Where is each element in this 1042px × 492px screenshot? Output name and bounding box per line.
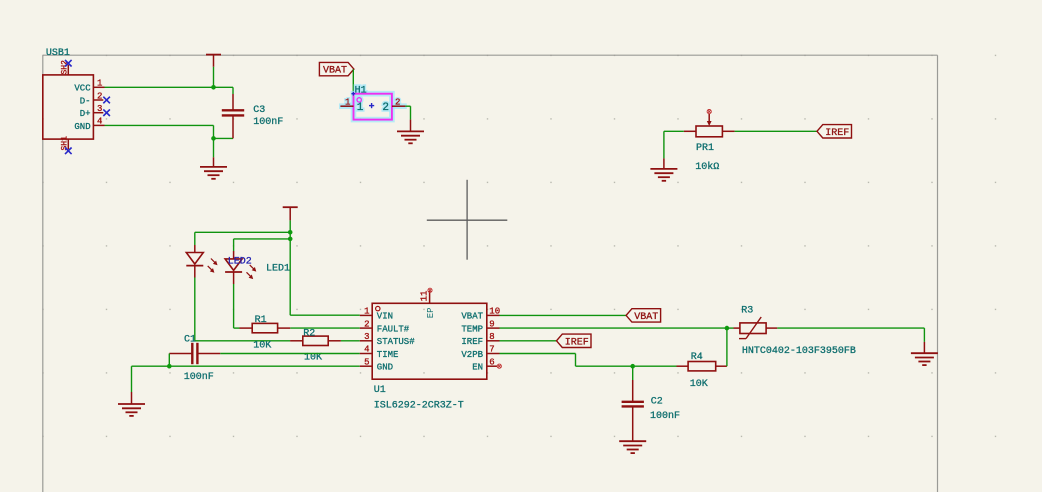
global label VBAT (pin10) — [626, 309, 661, 323]
wire C1 left down — [168, 354, 170, 367]
wire LED rail vertical — [289, 220, 291, 315]
svg-text:2: 2 — [364, 319, 369, 329]
LED D LED2 — [225, 251, 256, 284]
resistor R1 10K — [240, 315, 291, 352]
capacitor C1 100nF — [169, 334, 220, 382]
svg-text:EP: EP — [426, 307, 436, 318]
svg-text:C1: C1 — [184, 334, 196, 345]
svg-text:GND: GND — [377, 363, 393, 373]
wire R4 up to TEMP junction — [726, 328, 728, 366]
svg-text:4: 4 — [364, 345, 369, 355]
wire branch to LED1 — [195, 232, 290, 245]
svg-text:VBAT: VBAT — [461, 312, 483, 322]
wire VBAT to H1 — [352, 69, 354, 93]
wire C1 right to U1 pin4 — [220, 353, 359, 355]
svg-text:HNTC0402-103F3950FB: HNTC0402-103F3950FB — [742, 346, 856, 357]
wire corner down to ground — [213, 125, 215, 157]
svg-text:D+: D+ — [80, 109, 91, 119]
wire LED2 to row2 — [234, 284, 240, 328]
wire rail to ground — [131, 366, 133, 392]
svg-text:5: 5 — [364, 357, 369, 367]
wire TEMP junction to R3 — [727, 327, 734, 329]
svg-text:10kΩ: 10kΩ — [695, 161, 719, 173]
wire GND rail row5 — [132, 365, 360, 367]
svg-text:LED2: LED2 — [228, 257, 252, 268]
svg-text:PR1: PR1 — [696, 143, 714, 154]
wire junction to C3 top — [214, 87, 234, 94]
no-connect X on pin 2 D- — [103, 97, 110, 104]
cursor crosshair — [427, 180, 508, 260]
svg-text:6: 6 — [489, 357, 494, 367]
wire rail to U1 pin1 — [290, 314, 360, 316]
svg-text:R3: R3 — [741, 306, 753, 317]
svg-text:VBAT: VBAT — [323, 66, 347, 77]
wire GND pin4 to corner — [105, 124, 214, 126]
wire pin8 to IREF — [500, 340, 557, 342]
power symbol VBUS (LED rail) — [283, 207, 298, 220]
svg-text:10K: 10K — [304, 353, 322, 364]
power symbol VBUS (top of USB section) — [206, 55, 221, 67]
wire VCC pin1 to junction — [105, 86, 214, 88]
ground (R3) — [911, 342, 938, 365]
ground (C1 rail) — [118, 392, 145, 416]
svg-text:11: 11 — [420, 291, 430, 302]
svg-text:VIN: VIN — [377, 312, 393, 322]
wire PR1 left to ground — [664, 131, 684, 158]
svg-text:TIME: TIME — [377, 350, 399, 360]
svg-text:STATUS#: STATUS# — [377, 337, 415, 347]
svg-text:VBAT: VBAT — [634, 312, 658, 323]
ground (USB/C3) — [200, 157, 227, 179]
svg-text:IREF: IREF — [461, 337, 483, 347]
ground (H1) — [397, 120, 424, 144]
wire power stem down to junction — [213, 67, 215, 88]
svg-text:R2: R2 — [303, 328, 315, 339]
no-connect X on pin 3 D+ — [103, 109, 110, 116]
wire LED1 to row3 — [195, 278, 290, 341]
resistor R4 10K — [677, 352, 727, 390]
wire H1 pin2 to ground — [405, 106, 410, 119]
node GND junction — [211, 136, 216, 141]
svg-text:U1: U1 — [374, 385, 386, 396]
wire R1 to U1 pin2 — [290, 327, 360, 329]
svg-text:ISL6292-2CR3Z-T: ISL6292-2CR3Z-T — [374, 401, 464, 412]
svg-text:100nF: 100nF — [253, 117, 283, 128]
svg-text:1: 1 — [357, 102, 364, 114]
svg-text:VCC: VCC — [74, 84, 91, 94]
op-amp / IC U1 ISL6292-2CR3Z-T — [360, 291, 500, 412]
node C1/GND junction — [167, 364, 172, 369]
svg-text:2: 2 — [395, 98, 400, 108]
svg-text:100nF: 100nF — [184, 372, 214, 383]
svg-text:1: 1 — [345, 98, 350, 108]
resistor R2 10K — [290, 328, 341, 363]
wire branch to LED2 — [234, 239, 291, 251]
svg-text:USB1: USB1 — [46, 48, 70, 59]
svg-text:10: 10 — [489, 307, 500, 317]
unconnected marker pin 11 — [428, 288, 432, 292]
svg-text:3: 3 — [364, 332, 369, 342]
svg-text:H1: H1 — [355, 86, 367, 97]
global label IREF (pin8) — [557, 334, 592, 348]
wire pin10 to VBAT — [500, 314, 627, 316]
svg-text:2: 2 — [382, 102, 389, 114]
svg-text:D-: D- — [80, 96, 91, 106]
svg-text:9: 9 — [489, 319, 494, 329]
svg-text:8: 8 — [489, 332, 494, 342]
node LED2 branch — [288, 237, 293, 242]
unconnected marker pin 6 EN — [497, 364, 501, 368]
node TEMP junction — [725, 326, 730, 331]
wire R2 to U1 pin3 — [341, 340, 360, 342]
svg-text:FAULT#: FAULT# — [377, 324, 410, 334]
svg-text:1: 1 — [97, 79, 102, 89]
svg-text:10K: 10K — [253, 341, 271, 352]
svg-text:GND: GND — [74, 122, 90, 132]
svg-text:IREF: IREF — [825, 128, 849, 139]
capacitor C2 100nF — [622, 366, 680, 441]
potentiometer PR1 10k — [684, 114, 735, 173]
thermistor R3 HNTC0402 — [734, 306, 856, 357]
ground (PR1) — [650, 158, 677, 180]
svg-text:1: 1 — [364, 307, 369, 317]
unconnected wiper marker PR1 — [707, 110, 711, 114]
svg-text:IREF: IREF — [565, 337, 589, 348]
jumper H1 (selected, highlighted) — [339, 86, 407, 120]
svg-text:3: 3 — [97, 104, 102, 114]
wire pin7 V2PB down and right — [500, 354, 677, 367]
no-connect X on SH2 — [65, 60, 72, 67]
svg-text:4: 4 — [97, 117, 102, 127]
node LED1 branch — [288, 230, 293, 235]
LED D LED1 — [186, 245, 290, 278]
svg-text:R4: R4 — [691, 352, 703, 363]
svg-text:V2PB: V2PB — [461, 350, 483, 360]
svg-text:7: 7 — [489, 345, 494, 355]
ground (C2) — [619, 441, 646, 453]
wire R3 right to ground — [777, 328, 924, 342]
svg-text:10K: 10K — [690, 379, 708, 390]
svg-text:2: 2 — [97, 91, 102, 101]
node C2 junction — [630, 364, 635, 369]
svg-text:LED1: LED1 — [266, 263, 290, 274]
svg-text:EN: EN — [472, 363, 483, 373]
wire pin9 TEMP to R3 — [500, 327, 727, 329]
svg-text:100nF: 100nF — [650, 411, 680, 422]
svg-text:R1: R1 — [255, 315, 267, 326]
global label IREF (at PR1) — [817, 125, 852, 139]
capacitor C3 — [222, 94, 283, 138]
svg-text:C2: C2 — [651, 397, 663, 408]
connector USB1 — [43, 48, 105, 151]
wire PR1 right to IREF — [735, 130, 817, 132]
no-connect X on SH1 — [65, 148, 72, 155]
svg-text:TEMP: TEMP — [461, 324, 483, 334]
node VCC junction — [211, 85, 216, 90]
svg-text:C3: C3 — [253, 105, 265, 116]
wire C3 bottom to junction — [214, 137, 234, 139]
global label VBAT (to H1) — [319, 62, 354, 76]
